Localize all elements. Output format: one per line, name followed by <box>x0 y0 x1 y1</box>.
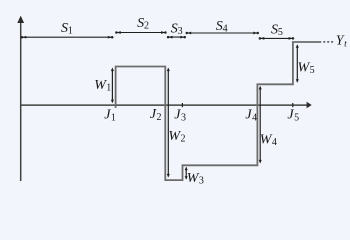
measure arrow W4 <box>259 86 262 164</box>
svg-text:W: W <box>298 60 311 75</box>
svg-text:4: 4 <box>272 137 277 148</box>
measure arrow W1 <box>111 68 114 104</box>
svg-text:t: t <box>344 40 347 50</box>
trajectory path of Y_t (jumps at J1..J5) <box>116 42 322 180</box>
tick J3 <box>181 103 183 107</box>
span arrow S3 <box>167 36 186 39</box>
svg-text:2: 2 <box>144 21 149 32</box>
svg-text:4: 4 <box>223 23 228 34</box>
y-axis <box>17 16 24 181</box>
svg-text:3: 3 <box>181 112 186 123</box>
span arrow S1 <box>21 36 114 39</box>
svg-text:4: 4 <box>252 112 257 123</box>
svg-text:W: W <box>260 133 273 148</box>
x-axis <box>21 102 312 108</box>
svg-text:5: 5 <box>310 65 315 76</box>
svg-text:1: 1 <box>68 25 73 36</box>
svg-text:5: 5 <box>294 112 299 123</box>
svg-text:1: 1 <box>111 112 116 123</box>
svg-text:W: W <box>94 78 107 93</box>
svg-text:3: 3 <box>199 176 204 187</box>
svg-text:2: 2 <box>157 112 162 123</box>
svg-text:W: W <box>168 129 181 144</box>
svg-text:2: 2 <box>181 133 186 144</box>
tick J5 <box>292 103 294 107</box>
svg-text:1: 1 <box>106 82 111 93</box>
svg-text:5: 5 <box>278 27 283 38</box>
svg-text:W: W <box>187 171 200 186</box>
measure arrow W5 <box>296 44 299 83</box>
measure arrow W3 <box>185 167 188 180</box>
dashed continuation of trajectory <box>323 41 333 43</box>
span arrow S5 <box>259 37 295 40</box>
span arrow S4 <box>186 32 259 35</box>
svg-text:3: 3 <box>178 26 183 37</box>
span arrow S2 <box>115 31 166 34</box>
measure arrow W2 <box>167 68 170 178</box>
